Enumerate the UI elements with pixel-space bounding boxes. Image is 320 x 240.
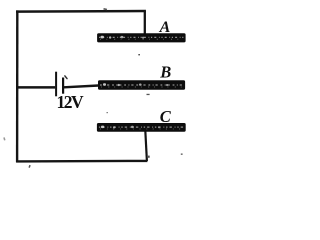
svg-text:12V: 12V [57, 92, 85, 112]
svg-text:A: A [159, 19, 171, 36]
svg-text:C: C [160, 107, 172, 126]
svg-text:B: B [159, 62, 171, 81]
